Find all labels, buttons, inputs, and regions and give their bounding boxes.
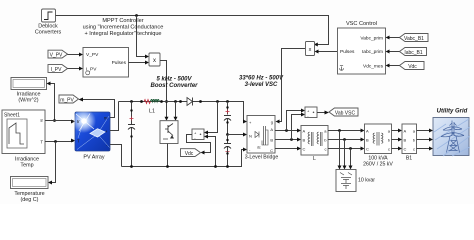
block MPPT controller U1 xyxy=(83,48,129,78)
arrow into bridge plus xyxy=(243,120,247,124)
goto tag m_PV xyxy=(59,95,79,104)
from tag Iabc_B1 xyxy=(386,48,427,57)
wire PV plus to top rail xyxy=(110,102,119,131)
block PV Array xyxy=(72,109,110,151)
wire Ir signal to PV array xyxy=(45,120,75,124)
svg-text:10 kvar: 10 kvar xyxy=(358,178,375,184)
svg-text:Sheet1: Sheet1 xyxy=(4,113,20,119)
svg-text:3-Level Bridge: 3-Level Bridge xyxy=(245,155,279,161)
wire bridge C to choke xyxy=(275,147,301,151)
wire Vdc measurement output to Vdc tag xyxy=(187,135,211,155)
svg-text:C: C xyxy=(366,147,369,152)
annotation 3-level VSC xyxy=(239,76,284,89)
block B1 measurement xyxy=(402,124,417,154)
svg-text:N: N xyxy=(249,133,252,138)
wire phase B tap to Vab measurement xyxy=(292,115,303,140)
wire tap to Temperature display xyxy=(48,142,56,185)
svg-text:dc: dc xyxy=(257,146,261,150)
wire B1 c to grid xyxy=(417,147,434,151)
transistor IGBT boost switch xyxy=(160,121,178,144)
annotation Boost Converter xyxy=(150,77,198,90)
wire bottom DC rail xyxy=(122,150,247,167)
product block X1 xyxy=(149,53,160,66)
svg-text:Vdc_mes: Vdc_mes xyxy=(363,63,384,69)
label Irradiance (W/m^2) xyxy=(17,92,41,104)
block Vab voltage measurement xyxy=(305,107,317,118)
svg-text:m: m xyxy=(104,116,108,121)
product block X2 xyxy=(306,42,315,56)
wire MPPT Pulses to product X1 xyxy=(129,61,150,65)
label Deblock Converters xyxy=(35,24,62,36)
svg-text:V_PV: V_PV xyxy=(86,52,99,58)
block Vdc voltage measurement xyxy=(192,129,204,140)
capacitor DC link C1 xyxy=(224,100,231,134)
svg-text:(W/m^2): (W/m^2) xyxy=(18,98,38,104)
wire VSC pulses to X2 xyxy=(315,50,338,54)
wire rail to IGBT collector xyxy=(174,100,178,121)
svg-text:Vab VSC: Vab VSC xyxy=(335,111,356,117)
svg-text:I_PV: I_PV xyxy=(86,67,97,73)
svg-text:g: g xyxy=(271,119,273,124)
svg-text:Vabc_B1: Vabc_B1 xyxy=(404,36,424,42)
svg-text:B1: B1 xyxy=(406,156,412,162)
wire choke b to transformer xyxy=(328,138,365,142)
from tag V_PV xyxy=(48,50,83,58)
wire bridge A to choke xyxy=(275,129,301,133)
svg-text:Iabc_prim: Iabc_prim xyxy=(362,49,383,55)
svg-text:3-level VSC: 3-level VSC xyxy=(245,82,278,88)
wire PV m output to m_PV tag xyxy=(79,98,115,118)
wire top rail to Vdc measurement input xyxy=(204,100,219,134)
svg-text:Boost Converter: Boost Converter xyxy=(150,83,198,89)
wire B1 a to grid xyxy=(417,129,434,133)
svg-text:c: c xyxy=(413,147,415,152)
svg-text:Pulses: Pulses xyxy=(112,60,127,66)
wire X1 output to boost IGBT gate xyxy=(160,61,169,121)
wire choke a to transformer xyxy=(328,129,365,133)
svg-text:using "Incremental Conductance: using "Incremental Conductance xyxy=(83,25,164,31)
goto tag Vdc xyxy=(181,149,201,157)
diode D1 on top rail xyxy=(179,98,202,106)
svg-text:C: C xyxy=(404,147,407,152)
svg-text:Vdc: Vdc xyxy=(185,151,194,157)
capacitor DC link C2 xyxy=(224,135,231,168)
arrow into bridge minus xyxy=(243,148,247,152)
wire IGBT emitter to bottom rail xyxy=(166,144,169,168)
svg-text:x: x xyxy=(309,47,312,53)
svg-text:T: T xyxy=(40,140,43,145)
svg-text:L: L xyxy=(313,156,316,162)
svg-text:L1: L1 xyxy=(149,109,155,115)
svg-text:Utility Grid: Utility Grid xyxy=(437,109,468,115)
annotation MPPT Controller title xyxy=(83,18,164,37)
svg-text:c: c xyxy=(388,147,390,152)
wire choke c to transformer xyxy=(328,147,365,151)
wire phase C down to capacitor bank xyxy=(349,149,353,170)
wire bridge B to choke xyxy=(275,138,301,142)
svg-text:B: B xyxy=(303,138,306,143)
block Deblock Converters (step source) xyxy=(42,9,56,22)
wire phase A down to capacitor bank xyxy=(338,131,342,170)
svg-text:PV Array: PV Array xyxy=(83,155,105,161)
svg-text:Temp: Temp xyxy=(20,163,33,169)
capacitor Cin input branch xyxy=(128,100,135,168)
wire top DC rail xyxy=(119,102,247,122)
svg-text:Converters: Converters xyxy=(35,30,62,36)
wire transformer b to B1 xyxy=(392,138,403,142)
wire X2 output to bridge g input xyxy=(276,49,306,124)
block Temperature display xyxy=(11,177,49,189)
label Irradiance Temp xyxy=(15,157,39,169)
wire bottom rail to Vdc measurement input xyxy=(204,135,217,168)
svg-text:260V / 25 kV: 260V / 25 kV xyxy=(363,162,393,168)
svg-text:B: B xyxy=(270,137,273,142)
block Utility Grid xyxy=(433,118,470,157)
svg-text:33*60 Hz - 500V: 33*60 Hz - 500V xyxy=(239,76,284,82)
svg-text:B: B xyxy=(366,138,369,143)
wire tap to Irradiance display xyxy=(51,84,56,122)
wire T signal to PV array xyxy=(45,139,75,143)
wire Vab measurement to Vab VSC tag xyxy=(317,111,329,115)
wire phase B down to capacitor bank xyxy=(343,140,347,170)
inductor L1 branch (resistor + coil) xyxy=(140,100,163,104)
svg-text:m_PV: m_PV xyxy=(60,98,74,104)
svg-text:5 kHz - 500V: 5 kHz - 500V xyxy=(156,77,192,83)
svg-text:c: c xyxy=(325,147,327,152)
block 3-Level Bridge xyxy=(247,116,275,154)
svg-text:C: C xyxy=(270,148,273,153)
block Signal Builder Irradiance Temp xyxy=(2,110,45,154)
svg-text:Pulses: Pulses xyxy=(340,49,355,55)
svg-text:V_PV: V_PV xyxy=(50,53,63,59)
svg-text:I_PV: I_PV xyxy=(51,67,63,73)
transformer 100 kVA xyxy=(365,124,392,154)
block VSC Control xyxy=(338,28,386,74)
wire B1 b to grid xyxy=(417,138,434,142)
from tag I_PV xyxy=(48,65,83,73)
arrow into Vab measurement input 2 xyxy=(301,113,305,117)
junction dot on T wire xyxy=(54,140,57,143)
capacitor bank block xyxy=(336,170,356,192)
svg-text:C: C xyxy=(303,147,306,152)
svg-text:Iabc_B1: Iabc_B1 xyxy=(404,50,423,56)
svg-text:A: A xyxy=(303,129,306,134)
svg-text:MPPT Controller: MPPT Controller xyxy=(102,18,143,24)
svg-text:+: + xyxy=(105,129,108,134)
block choke RL xyxy=(301,126,328,156)
svg-text:A: A xyxy=(270,127,273,132)
from tag Vabc_B1 xyxy=(386,34,429,43)
label Temperature (deg C) xyxy=(14,191,44,203)
wire branch to product X1 xyxy=(137,16,150,59)
wire transformer a to B1 xyxy=(392,129,403,133)
svg-text:T: T xyxy=(77,138,80,143)
svg-text:Vabc_prim: Vabc_prim xyxy=(360,35,383,41)
wire Deblock to product X2 xyxy=(56,16,329,47)
from tag Vdc xyxy=(386,62,425,71)
goto tag Vab VSC xyxy=(329,108,358,117)
svg-text:A: A xyxy=(366,129,369,134)
svg-text:+ Integral Regulator" techniqu: + Integral Regulator" technique xyxy=(84,31,161,37)
node DC midpoint to bridge N xyxy=(226,133,247,137)
label 100 kVA 260V 25kV xyxy=(363,156,393,168)
svg-text:A: A xyxy=(404,129,407,134)
block Irradiance display xyxy=(11,78,51,90)
arrow into Vab measurement input 1 xyxy=(301,109,305,113)
svg-text:B: B xyxy=(404,138,407,143)
wire PV minus to bottom rail xyxy=(110,145,122,167)
svg-text:x: x xyxy=(153,58,156,64)
svg-text:(deg C): (deg C) xyxy=(21,197,39,203)
wire transformer c to B1 xyxy=(392,147,403,151)
svg-text:VSC Control: VSC Control xyxy=(346,21,377,27)
wire phase A tap to Vab measurement xyxy=(287,111,303,131)
junction dot on deblock wire xyxy=(135,14,138,17)
svg-text:Vdc: Vdc xyxy=(408,64,417,70)
